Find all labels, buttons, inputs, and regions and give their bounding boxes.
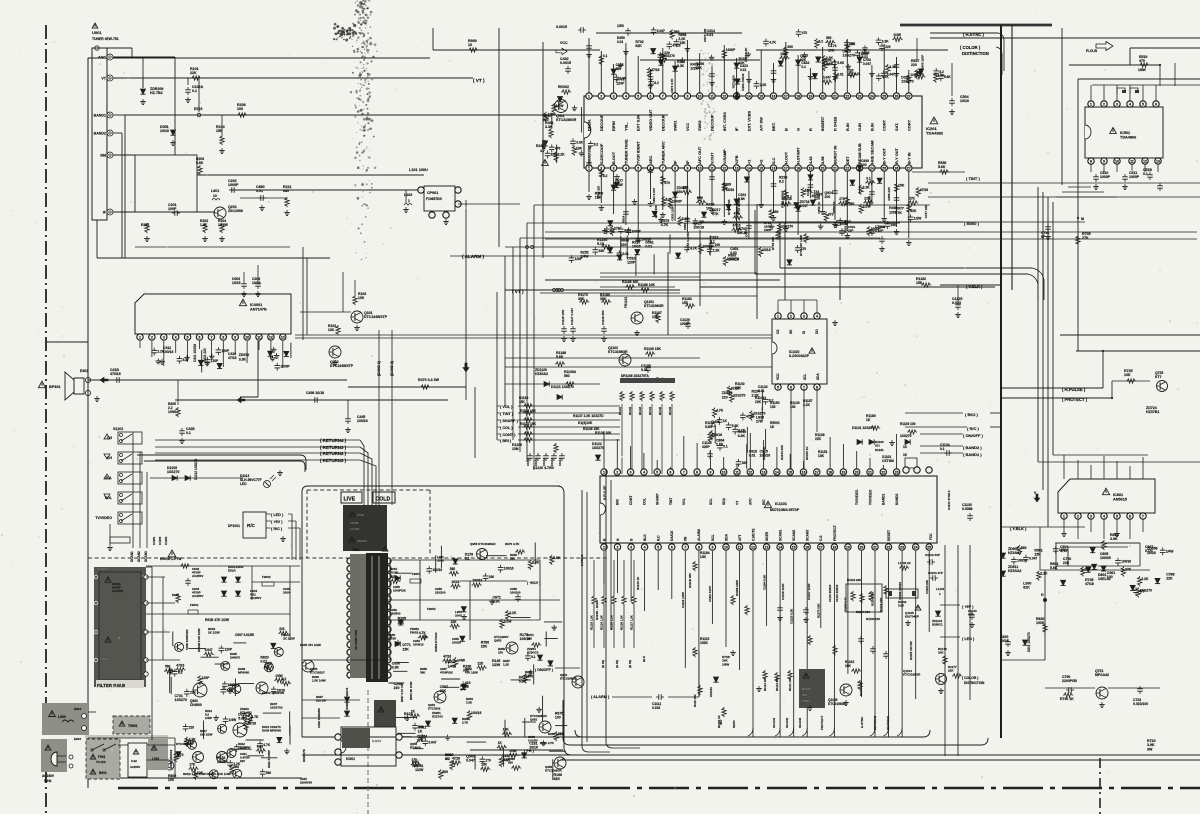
svg-text:1/2W: 1/2W <box>492 663 501 667</box>
svg-text:R814: R814 <box>621 215 625 223</box>
svg-text:B.IN: B.IN <box>869 123 874 131</box>
svg-text:8.2: 8.2 <box>282 677 287 681</box>
svg-text:15K: 15K <box>519 400 526 404</box>
svg-text:100: 100 <box>555 716 561 720</box>
svg-text:10K: 10K <box>503 728 510 732</box>
svg-text:0.047: 0.047 <box>800 204 808 208</box>
svg-text:1/4W: 1/4W <box>1166 549 1173 553</box>
svg-text:SW02: SW02 <box>697 120 702 131</box>
svg-text:20: 20 <box>855 470 859 474</box>
svg-text:4: 4 <box>175 335 177 339</box>
svg-text:3.3K: 3.3K <box>576 140 583 144</box>
svg-text:SDA: SDA <box>722 497 726 505</box>
svg-text:47K 1/2W: 47K 1/2W <box>465 671 478 675</box>
svg-text:TV/VIDEO: TV/VIDEO <box>95 516 112 520</box>
svg-text:BLK: BLK <box>642 655 646 662</box>
svg-text:DA/CK: DA/CK <box>670 530 674 541</box>
svg-text:0.1: 0.1 <box>866 176 871 180</box>
svg-text:IC901: IC901 <box>346 757 355 761</box>
svg-text:20: 20 <box>821 94 825 98</box>
svg-text:R1126 1.2K: R1126 1.2K <box>620 615 624 630</box>
svg-text:13: 13 <box>281 335 285 339</box>
svg-text:10M: 10M <box>512 447 519 451</box>
svg-text:11: 11 <box>738 545 742 549</box>
svg-text:C633 120P: C633 120P <box>671 206 675 221</box>
svg-text:1: 1 <box>603 545 605 549</box>
svg-text:5.6K: 5.6K <box>837 61 844 65</box>
svg-text:22K: 22K <box>1085 567 1092 571</box>
svg-text:22: 22 <box>887 545 891 549</box>
svg-text:R91B 47K 1/2W: R91B 47K 1/2W <box>205 618 230 622</box>
svg-text:R-Y OUT: R-Y OUT <box>894 147 899 164</box>
svg-text:R1106 15K: R1106 15K <box>644 347 662 351</box>
svg-text:R973 390: R973 390 <box>703 28 707 41</box>
svg-text:2.2K: 2.2K <box>1040 572 1048 576</box>
svg-text:1/50: 1/50 <box>617 24 624 28</box>
svg-text:9: 9 <box>686 166 688 170</box>
svg-text:3.3K: 3.3K <box>677 64 685 68</box>
svg-text:SCL: SCL <box>709 498 713 505</box>
svg-text:C873 4.7K: C873 4.7K <box>670 78 674 93</box>
svg-text:( RETURN3 ): ( RETURN3 ) <box>320 445 347 450</box>
svg-text:27K: 27K <box>189 763 196 767</box>
svg-text:560: 560 <box>849 202 855 206</box>
svg-text:1/4W: 1/4W <box>893 33 900 37</box>
svg-text:SW01: SW01 <box>673 120 678 131</box>
svg-text:HZ3SA2: HZ3SA2 <box>535 372 548 376</box>
svg-text:RESET: RESET <box>887 530 891 541</box>
svg-text:3W: 3W <box>1147 747 1153 751</box>
svg-text:1SS270: 1SS270 <box>753 411 765 415</box>
svg-text:SCAN1: SCAN1 <box>130 551 134 562</box>
svg-text:C1103 47P: C1103 47P <box>928 571 943 575</box>
svg-text:IF: IF <box>734 127 739 131</box>
svg-text:C1111 0.047: C1111 0.047 <box>708 586 712 602</box>
svg-text:DI: DI <box>802 331 806 334</box>
svg-text:23: 23 <box>895 470 899 474</box>
svg-text:100: 100 <box>824 195 830 199</box>
svg-text:100/16: 100/16 <box>693 226 704 230</box>
svg-text:SCAN1: SCAN1 <box>779 530 783 541</box>
svg-text:1/2W: 1/2W <box>914 216 921 220</box>
svg-text:CH4909: CH4909 <box>190 703 202 707</box>
svg-text:DECOUP: DECOUP <box>599 114 604 131</box>
svg-text:R960 4.7K: R960 4.7K <box>548 732 563 736</box>
svg-text:22K: 22K <box>948 669 954 673</box>
svg-text:1000P: 1000P <box>228 183 239 187</box>
svg-text:1K: 1K <box>903 453 908 457</box>
svg-text:5.6K: 5.6K <box>553 556 561 560</box>
svg-text:22K: 22K <box>190 71 197 75</box>
svg-text:17: 17 <box>784 94 788 98</box>
svg-text:12: 12 <box>751 545 755 549</box>
svg-text:B-Y OUT: B-Y OUT <box>882 147 887 164</box>
svg-text:C.MUTE: C.MUTE <box>751 528 755 541</box>
svg-text:120P: 120P <box>202 676 211 680</box>
svg-text:0.01: 0.01 <box>260 659 267 663</box>
svg-text:23: 23 <box>900 545 904 549</box>
svg-text:C960: C960 <box>357 513 365 517</box>
svg-text:M37210M4-957SP: M37210M4-957SP <box>770 508 800 512</box>
svg-text:220: 220 <box>885 45 891 49</box>
svg-text:4P4: 4P4 <box>460 688 466 692</box>
svg-text:220: 220 <box>850 42 856 46</box>
svg-text:15: 15 <box>788 470 792 474</box>
svg-text:L101 100U: L101 100U <box>409 168 428 172</box>
svg-text:KTC3202: KTC3202 <box>428 707 441 711</box>
svg-text:100: 100 <box>861 163 867 167</box>
svg-text:100/100: 100/100 <box>510 591 521 595</box>
svg-text:C1110 220/10: C1110 220/10 <box>835 584 839 602</box>
svg-text:560: 560 <box>442 770 448 774</box>
svg-text:C1113: C1113 <box>550 458 554 466</box>
svg-text:I/N: I/N <box>684 536 688 541</box>
svg-text:8: 8 <box>222 335 224 339</box>
svg-text:HZ-7B2: HZ-7B2 <box>150 91 163 95</box>
svg-text:( RETURN4 ): ( RETURN4 ) <box>320 438 347 443</box>
svg-text:6: 6 <box>1129 514 1131 518</box>
svg-text:25: 25 <box>882 94 886 98</box>
svg-text:8.2: 8.2 <box>183 358 188 362</box>
svg-text:SCAN3: SCAN3 <box>144 551 148 562</box>
svg-text:8: 8 <box>698 545 700 549</box>
svg-text:9: 9 <box>711 545 713 549</box>
svg-text:Q953: Q953 <box>494 639 502 643</box>
svg-text:100/16: 100/16 <box>471 711 481 715</box>
svg-text:R1124 1.2K: R1124 1.2K <box>600 615 604 630</box>
svg-text:560: 560 <box>826 36 832 40</box>
svg-text:22K: 22K <box>815 437 822 441</box>
svg-text:3.3K: 3.3K <box>823 63 831 67</box>
svg-text:( ALARM ): ( ALARM ) <box>591 695 610 699</box>
svg-text:120P: 120P <box>616 81 625 85</box>
svg-text:TV/VIDEO: TV/VIDEO <box>855 489 859 505</box>
svg-text:22K: 22K <box>735 386 742 390</box>
svg-text:4: 4 <box>625 166 627 170</box>
svg-text:23: 23 <box>858 94 862 98</box>
svg-text:( RETURN3 ): ( RETURN3 ) <box>320 458 347 463</box>
svg-text:0.01: 0.01 <box>257 744 263 748</box>
svg-text:1SS270: 1SS270 <box>733 393 745 397</box>
svg-text:7: 7 <box>210 335 212 339</box>
svg-text:5: 5 <box>777 385 779 389</box>
svg-text:100U: 100U <box>455 614 462 618</box>
svg-text:( BAND2 ): ( BAND2 ) <box>963 445 982 450</box>
svg-text:( ALARM ): ( ALARM ) <box>462 254 484 259</box>
svg-text:22K: 22K <box>864 196 871 200</box>
svg-text:AN5615: AN5615 <box>1113 497 1127 501</box>
svg-text:3.58: 3.58 <box>820 156 825 164</box>
svg-text:5.6K: 5.6K <box>898 604 905 608</box>
svg-text:10: 10 <box>1115 159 1119 163</box>
svg-text:TUNER TAKE: TUNER TAKE <box>623 139 628 164</box>
svg-text:100: 100 <box>168 778 174 782</box>
svg-text:BM: BM <box>100 154 106 158</box>
svg-text:82K: 82K <box>910 209 917 213</box>
svg-text:0.1/1: 0.1/1 <box>1145 549 1153 553</box>
svg-text:AC250V: AC250V <box>192 574 203 578</box>
svg-text:R556 1K: R556 1K <box>832 201 836 214</box>
svg-text:SCAN3: SCAN3 <box>806 530 810 541</box>
svg-text:HUE SECAM: HUE SECAM <box>869 141 874 164</box>
svg-text:C903 120P: C903 120P <box>920 55 924 70</box>
svg-text:26: 26 <box>895 166 899 170</box>
svg-text:13: 13 <box>1156 159 1160 163</box>
svg-text:1/4W: 1/4W <box>457 658 466 662</box>
svg-text:DR1108 1SS270TA: DR1108 1SS270TA <box>621 374 649 378</box>
svg-text:5: 5 <box>657 545 659 549</box>
svg-text:0.1: 0.1 <box>531 655 536 659</box>
svg-text:10: 10 <box>698 94 702 98</box>
svg-text:B901: B901 <box>99 771 107 775</box>
svg-text:50Hz: 50Hz <box>44 779 52 783</box>
svg-text:R5150 1K: R5150 1K <box>805 446 809 460</box>
svg-text:HZ37B1: HZ37B1 <box>1146 410 1159 414</box>
svg-text:6: 6 <box>671 545 673 549</box>
svg-text:0.033: 0.033 <box>952 301 961 305</box>
svg-text:100U: 100U <box>437 559 444 563</box>
svg-text:2.2K: 2.2K <box>558 152 566 156</box>
svg-text:PROTECT: PROTECT <box>820 715 824 730</box>
svg-text:2200P/50: 2200P/50 <box>1062 679 1077 683</box>
svg-text:0.047: 0.047 <box>657 29 665 33</box>
svg-text:( H.SYNC ): ( H.SYNC ) <box>963 32 985 37</box>
svg-text:C1199 100/16: C1199 100/16 <box>898 582 902 600</box>
svg-text:EXT S.IN: EXT S.IN <box>636 115 641 131</box>
svg-text:0.01: 0.01 <box>641 368 648 372</box>
svg-text:R111B 680: R111B 680 <box>688 573 692 588</box>
svg-text:10: 10 <box>245 335 249 339</box>
svg-text:1/4W: 1/4W <box>509 749 516 753</box>
svg-text:0.1: 0.1 <box>723 445 728 449</box>
svg-text:( 50/60 ): ( 50/60 ) <box>964 221 980 226</box>
svg-text:5: 5 <box>637 166 639 170</box>
svg-text:R1144: R1144 <box>648 406 652 415</box>
svg-text:C881: C881 <box>683 222 687 230</box>
svg-text:1SS270: 1SS270 <box>167 470 180 474</box>
svg-text:5: 5 <box>187 335 189 339</box>
svg-text:1/4W: 1/4W <box>229 718 236 722</box>
svg-text:18: 18 <box>828 470 832 474</box>
svg-text:4: 4 <box>1103 514 1105 518</box>
svg-text:2.2K: 2.2K <box>713 248 720 252</box>
svg-text:19: 19 <box>842 470 846 474</box>
svg-text:BLK: BLK <box>643 534 647 541</box>
svg-text:F901: F901 <box>98 755 105 759</box>
svg-text:MP9060: MP9060 <box>238 671 250 675</box>
svg-text:( VT ): ( VT ) <box>473 78 485 83</box>
svg-text:R.G.B: R.G.B <box>1086 48 1097 53</box>
svg-text:T901: T901 <box>352 548 359 552</box>
svg-text:8.2: 8.2 <box>654 81 659 85</box>
svg-text:PROTECT: PROTECT <box>833 525 837 541</box>
svg-text:R907 2.7K 1W: R907 2.7K 1W <box>400 683 404 702</box>
svg-text:SCL: SCL <box>803 374 807 380</box>
svg-text:( Y.BLK ): ( Y.BLK ) <box>1010 526 1027 531</box>
svg-text:SCAN2: SCAN2 <box>785 717 789 728</box>
svg-text:F9002: F9002 <box>262 575 271 579</box>
svg-text:2: 2 <box>616 470 618 474</box>
svg-text:( ON/OFF ): ( ON/OFF ) <box>535 668 554 672</box>
svg-text:1: 1 <box>777 314 779 318</box>
svg-text:F9053: F9053 <box>427 607 436 611</box>
svg-text:C1184 5.6K: C1184 5.6K <box>762 574 766 590</box>
svg-text:3: 3 <box>630 545 632 549</box>
svg-text:5.1K: 5.1K <box>597 242 605 246</box>
svg-text:320P: 320P <box>702 445 711 449</box>
svg-text:5.6K: 5.6K <box>196 161 204 165</box>
svg-text:17: 17 <box>815 470 819 474</box>
svg-text:3.3K: 3.3K <box>466 701 473 705</box>
svg-text:11: 11 <box>735 470 739 474</box>
svg-text:BP401: BP401 <box>49 385 61 389</box>
svg-text:1SS270: 1SS270 <box>592 446 604 450</box>
svg-text:TUNER 4EW-751: TUNER 4EW-751 <box>92 37 119 41</box>
svg-text:8.2: 8.2 <box>779 180 784 184</box>
svg-text:( CONT ): ( CONT ) <box>500 433 516 437</box>
svg-text:14: 14 <box>778 545 782 549</box>
svg-text:SCL: SCL <box>711 534 715 541</box>
svg-text:39K: 39K <box>420 671 426 675</box>
svg-text:U001: U001 <box>92 30 102 35</box>
svg-text:SKER: SKER <box>765 531 769 541</box>
svg-text:R710 560K: R710 560K <box>737 199 741 215</box>
svg-text:( COLOR ): ( COLOR ) <box>960 45 981 50</box>
svg-text:1/4W: 1/4W <box>205 716 212 720</box>
svg-text:14: 14 <box>747 166 751 170</box>
svg-text:0.1: 0.1 <box>940 447 945 451</box>
svg-text:INT. CVBS: INT. CVBS <box>722 112 727 131</box>
svg-text:1/8W: 1/8W <box>722 662 729 666</box>
svg-text:2.2K: 2.2K <box>509 611 517 615</box>
svg-text:G: G <box>616 538 620 541</box>
svg-text:HZ27A3: HZ27A3 <box>432 715 443 719</box>
svg-text:R/C: R/C <box>247 523 256 528</box>
svg-text:27K: 27K <box>614 227 621 231</box>
svg-text:C1W3: C1W3 <box>158 536 162 545</box>
svg-text:17: 17 <box>819 545 823 549</box>
svg-text:100P: 100P <box>168 207 177 211</box>
svg-text:18: 18 <box>796 94 800 98</box>
svg-text:12: 12 <box>722 94 726 98</box>
svg-text:R/C: R/C <box>762 499 766 505</box>
svg-text:( R/C ): ( R/C ) <box>967 426 979 431</box>
svg-text:1/16W: 1/16W <box>218 223 229 227</box>
svg-text:COR?: COR? <box>906 119 911 131</box>
svg-text:C1121 1/4W: C1121 1/4W <box>681 592 685 608</box>
svg-text:26: 26 <box>895 94 899 98</box>
svg-text:0.01: 0.01 <box>749 454 756 458</box>
svg-text:1/2W: 1/2W <box>802 699 809 703</box>
svg-text:13: 13 <box>765 545 769 549</box>
svg-text:1/2W: 1/2W <box>780 52 787 56</box>
svg-text:3.3K: 3.3K <box>882 39 889 43</box>
svg-text:RU3H: RU3H <box>390 571 398 575</box>
svg-text:46V: 46V <box>719 720 723 725</box>
svg-text:H280C1: H280C1 <box>932 623 943 627</box>
svg-text:R910 27K: R910 27K <box>302 748 306 762</box>
svg-text:3: 3 <box>630 470 632 474</box>
svg-text:AGC: AGC <box>98 56 106 60</box>
svg-text:11: 11 <box>710 166 714 170</box>
svg-text:1SS270: 1SS270 <box>663 54 675 58</box>
svg-text:2: 2 <box>151 335 153 339</box>
svg-text:L348 100: L348 100 <box>654 205 658 218</box>
svg-text:220: 220 <box>677 190 683 194</box>
svg-text:M: M <box>1081 217 1084 221</box>
svg-text:KT?: KT? <box>1155 375 1162 379</box>
svg-text:HZ3SA2: HZ3SA2 <box>1008 551 1021 555</box>
svg-text:47/16: 47/16 <box>1085 582 1094 586</box>
svg-text:560: 560 <box>266 771 272 775</box>
svg-text:R901: R901 <box>172 593 180 597</box>
svg-text:220: 220 <box>621 243 627 247</box>
svg-text:R1125 1.2K: R1125 1.2K <box>610 615 614 630</box>
svg-text:FCC: FCC <box>929 533 933 540</box>
svg-text:9: 9 <box>1103 159 1105 163</box>
svg-text:F9003 1000P/50: F9003 1000P/50 <box>262 691 285 695</box>
svg-text:AC250V: AC250V <box>130 765 140 769</box>
svg-text:470: 470 <box>802 31 808 35</box>
svg-text:100/16: 100/16 <box>702 245 712 249</box>
svg-text:14: 14 <box>747 94 751 98</box>
svg-text:9: 9 <box>234 335 236 339</box>
svg-text:10K: 10K <box>576 147 583 151</box>
svg-text:( +B1V ): ( +B1V ) <box>527 581 541 585</box>
svg-text:D908 MP9060: D908 MP9060 <box>262 729 282 733</box>
svg-text:0.01: 0.01 <box>740 68 747 72</box>
svg-text:100: 100 <box>237 107 243 111</box>
svg-text:5.6K: 5.6K <box>519 680 527 684</box>
svg-text:R1145: R1145 <box>658 406 662 415</box>
svg-text:82K: 82K <box>551 153 558 157</box>
svg-text:560: 560 <box>450 567 456 571</box>
svg-text:4.7K: 4.7K <box>263 743 270 747</box>
svg-text:220: 220 <box>911 63 917 67</box>
svg-text:0.01: 0.01 <box>758 389 765 393</box>
svg-text:1SS270: 1SS270 <box>781 224 793 228</box>
svg-text:RETURN2: RETURN2 <box>873 716 877 730</box>
svg-text:0.047: 0.047 <box>429 740 437 744</box>
svg-text:DTC144WSTP: DTC144WSTP <box>364 315 388 319</box>
svg-text:1000P: 1000P <box>280 365 290 369</box>
svg-text:IF: IF <box>673 160 678 164</box>
svg-text:5: 5 <box>1116 514 1118 518</box>
svg-text:C1123 3.3K: C1123 3.3K <box>789 608 793 624</box>
svg-text:TH901: TH901 <box>128 724 138 728</box>
svg-text:15K: 15K <box>680 41 687 45</box>
svg-text:C1114: C1114 <box>558 458 562 466</box>
svg-text:R1181: R1181 <box>875 448 884 452</box>
svg-text:R1137 2.2K 1SS27D: R1137 2.2K 1SS27D <box>573 414 604 418</box>
svg-text:L1101: L1101 <box>936 587 945 591</box>
svg-text:R730 1K: R730 1K <box>1060 697 1074 701</box>
svg-text:20: 20 <box>821 166 825 170</box>
svg-text:1/2W: 1/2W <box>863 205 872 209</box>
svg-text:4: 4 <box>816 314 818 318</box>
svg-text:16: 16 <box>802 470 806 474</box>
svg-text:100/16: 100/16 <box>641 238 651 242</box>
svg-text:8: 8 <box>674 166 676 170</box>
svg-text:27K: 27K <box>697 196 704 200</box>
svg-text:220/100: 220/100 <box>435 591 446 595</box>
svg-text:( TINT ): ( TINT ) <box>966 176 980 181</box>
svg-text:5.6K: 5.6K <box>732 424 739 428</box>
svg-text:22K: 22K <box>1063 561 1070 565</box>
svg-text:10K: 10K <box>358 296 365 300</box>
svg-text:14: 14 <box>775 470 779 474</box>
svg-text:( RETURN2 ): ( RETURN2 ) <box>320 451 347 456</box>
